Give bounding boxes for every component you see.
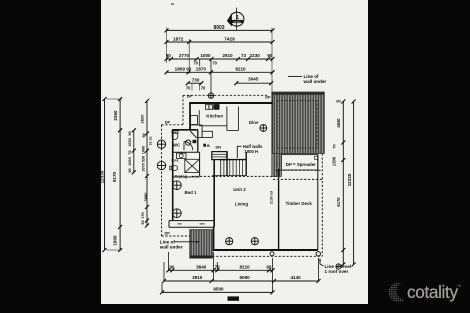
svg-text:DP: DP: [187, 94, 193, 98]
top dim row3 90 2770 1000 2910 73 2230 90: [165, 28, 275, 93]
svg-text:1060: 1060: [128, 157, 132, 165]
svg-text:90: 90: [336, 99, 341, 104]
svg-text:3045: 3045: [248, 77, 259, 82]
svg-text:2130 sd: 2130 sd: [269, 191, 273, 204]
dashed wall-under rect inside deck hatch: [277, 101, 317, 148]
svg-text:70: 70: [149, 137, 153, 141]
cotality watermark logo: [388, 278, 468, 308]
svg-text:Dine: Dine: [249, 120, 259, 125]
bed1 bottom double wall with window marks: [169, 221, 214, 228]
dashed drying line across living: [173, 175, 279, 177]
svg-text:2820: 2820: [139, 114, 144, 124]
bottom dim row3 9500: [160, 290, 275, 294]
dashed line of wall under (left, x=161.5) with DP: [162, 125, 190, 236]
deck hatch top right: [272, 92, 325, 169]
svg-text:1300: 1300: [332, 156, 337, 166]
svg-text:12330: 12330: [101, 170, 104, 183]
left dim line L2 2360 8170 1800: [106, 97, 122, 252]
svg-text:wall under: wall under: [159, 245, 183, 250]
svg-text:70: 70: [149, 142, 153, 146]
bottom witness lines: [162, 252, 319, 293]
svg-text:90: 90: [128, 131, 132, 135]
hatched wall strip below deck: [272, 154, 282, 177]
svg-text:5090: 5090: [239, 275, 250, 280]
svg-text:DP: DP: [165, 121, 171, 125]
scale bar: [228, 296, 240, 300]
svg-text:1800: 1800: [113, 235, 118, 246]
bottom dim row1 90 3840 70 8210 90: [167, 268, 275, 272]
svg-text:DP: DP: [165, 232, 171, 236]
svg-text:8210: 8210: [239, 264, 250, 269]
svg-text:9500: 9500: [213, 287, 224, 292]
svg-text:2910: 2910: [222, 53, 233, 58]
svg-text:14 Na: 14 Na: [233, 20, 241, 24]
svg-text:1000: 1000: [200, 53, 211, 58]
svg-text:DP: DP: [265, 95, 271, 99]
svg-text:1809: 1809: [175, 67, 186, 72]
svg-text:1000 H: 1000 H: [245, 149, 259, 154]
svg-text:530: 530: [141, 156, 145, 162]
DP=Spreader label box: [275, 155, 317, 170]
svg-text:8003: 8003: [213, 25, 224, 31]
svg-text:70: 70: [212, 61, 217, 66]
stair: [212, 152, 246, 176]
wc fixtures: [172, 131, 196, 150]
svg-text:1650: 1650: [128, 138, 132, 146]
svg-text:90: 90: [141, 220, 145, 224]
left dim line L1 12330: [103, 97, 107, 252]
svg-text:3910: 3910: [192, 275, 203, 280]
top dim row4 70 70: [200, 59, 211, 93]
svg-text:1000: 1000: [141, 146, 145, 154]
svg-text:Living: Living: [235, 202, 249, 207]
leader: line of wall under (top right): [288, 75, 302, 77]
left dim line L3 90 1650 70 1060 90: [132, 128, 136, 174]
svg-text:1870: 1870: [196, 67, 207, 72]
svg-text:1070: 1070: [141, 163, 145, 171]
svg-text:7429: 7429: [224, 36, 235, 41]
logo icon dotted sphere: [388, 279, 410, 306]
svg-text:170: 170: [141, 212, 145, 218]
svg-text:6170: 6170: [336, 197, 341, 207]
svg-text:Timber Deck: Timber Deck: [286, 201, 313, 206]
svg-text:8170: 8170: [112, 171, 117, 182]
svg-text:WC: WC: [173, 142, 180, 147]
svg-text:90: 90: [128, 168, 132, 172]
svg-text:1 roof over: 1 roof over: [325, 269, 349, 274]
svg-text:12330: 12330: [347, 173, 352, 186]
kitchen fixtures: [191, 105, 239, 138]
svg-text:3880: 3880: [143, 192, 148, 202]
svg-text:2770: 2770: [179, 53, 190, 58]
svg-text:90: 90: [267, 53, 273, 58]
leader: line of level 1 roof over (bottom right): [319, 259, 324, 267]
dashed spreader line: [276, 169, 323, 171]
svg-text:90: 90: [166, 53, 172, 58]
left dim line L4 2820 90 1000 530 1070 3880 170 90: [145, 99, 149, 228]
svg-text:90: 90: [142, 133, 146, 137]
right dim line R2 12330: [352, 100, 356, 267]
interior walls: [173, 130, 200, 177]
svg-text:730: 730: [192, 78, 200, 83]
outer walls: [172, 102, 318, 251]
svg-text:DN: DN: [216, 146, 222, 150]
svg-text:cotality: cotality: [407, 282, 458, 302]
svg-text:90: 90: [169, 264, 175, 269]
svg-text:70: 70: [186, 85, 191, 90]
stray scan speck top left: [171, 3, 174, 4]
svg-text:4140: 4140: [290, 275, 301, 280]
svg-text:8210: 8210: [235, 67, 246, 72]
dashed deck level line: [273, 178, 322, 180]
dashed roof-over bottom: [212, 255, 322, 257]
svg-text:B: B: [207, 144, 210, 148]
svg-text:70: 70: [193, 61, 198, 66]
svg-text:1872: 1872: [173, 36, 184, 41]
dashed line of wall under (top, y=95) with DP: [183, 95, 268, 124]
B box: [203, 144, 206, 147]
svg-text:Bed 1: Bed 1: [185, 190, 198, 195]
ens fixtures: [170, 153, 200, 173]
right bottom circle mark: [336, 264, 341, 269]
svg-text:4640: 4640: [336, 118, 341, 128]
svg-text:73: 73: [241, 53, 247, 58]
svg-text:™: ™: [457, 284, 462, 289]
svg-text:Ens: Ens: [171, 158, 178, 163]
north/title bubble marker: [227, 8, 244, 31]
svg-text:wall under: wall under: [303, 79, 327, 84]
top dim row1 8003: [165, 28, 275, 32]
svg-text:Kitchen: Kitchen: [206, 113, 223, 118]
svg-text:70: 70: [333, 144, 337, 148]
top dim row5 1809 90 1870 8210: [165, 70, 275, 74]
right dim line R1 4640 70 1300 6170: [341, 100, 345, 267]
svg-text:90: 90: [266, 264, 272, 269]
survey circle symbols: [157, 93, 320, 260]
bottom dim row2 3910 5090 4140: [162, 279, 321, 283]
svg-text:3840: 3840: [196, 264, 207, 269]
svg-text:2230: 2230: [250, 53, 261, 58]
bottom hatch (porch under): [190, 230, 213, 258]
svg-text:70: 70: [201, 85, 206, 90]
svg-text:–Drying–: –Drying–: [172, 173, 190, 178]
top dim row6 730: [186, 81, 204, 90]
svg-text:90: 90: [186, 67, 192, 72]
dashed roof-over vertical right: [321, 154, 323, 257]
svg-text:70: 70: [128, 150, 132, 154]
deck right rail: [317, 155, 319, 250]
svg-text:DP = Spreader: DP = Spreader: [286, 162, 316, 167]
svg-text:Unit 2: Unit 2: [233, 187, 246, 192]
top dim 3045: [234, 81, 273, 85]
top dim row2 1872 7429: [165, 39, 275, 74]
svg-text:2360: 2360: [113, 110, 118, 121]
